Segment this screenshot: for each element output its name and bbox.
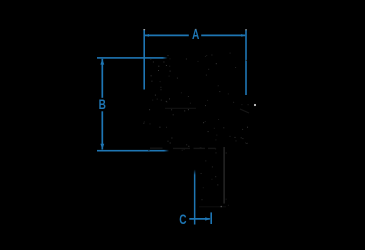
wire: dimension C left extension line	[194, 170, 196, 225]
wire: dimension B bottom extension line	[97, 150, 169, 152]
wire: dimension A line left segment	[145, 34, 189, 36]
svg-text:B: B	[99, 97, 107, 113]
wire: dimension A right extension line	[245, 30, 247, 95]
wire: dimension B line lower segment	[101, 111, 103, 149]
node: faint edge near right lower body	[240, 109, 249, 113]
wire: dimension A left extension line	[143, 30, 145, 90]
node: B bottom arrowhead	[100, 144, 104, 150]
node: light cap on A right extension	[245, 29, 247, 30]
node: faint bottom edge dashes of part body	[150, 147, 216, 149]
node: faint barrel bottom edge	[199, 206, 226, 208]
node: B top arrowhead	[100, 59, 104, 65]
node: light cap on A left extension	[143, 29, 145, 30]
svg-text:C: C	[179, 212, 187, 228]
node: faint right edge of barrel	[223, 147, 225, 204]
node: gray cap above letter A apex	[195, 29, 197, 30]
node: C right arrowhead	[205, 217, 210, 220]
node: faint shadow streak on body	[165, 107, 196, 109]
node: A left arrowhead	[145, 34, 149, 37]
wire: dimension B top extension line	[97, 57, 168, 59]
node: bright speck at barrel bottom corner	[221, 206, 222, 207]
wire: dimension B line upper segment	[101, 59, 103, 98]
wire: dimension C right extension line	[210, 212, 212, 224]
node: A right arrowhead	[241, 34, 245, 37]
node: white glint on part	[254, 104, 256, 106]
node: faint photo noise speckles	[143, 53, 248, 206]
wire: dimension A line right segment	[201, 34, 245, 36]
wire: dimension C line	[189, 218, 210, 220]
svg-text:A: A	[192, 27, 200, 43]
